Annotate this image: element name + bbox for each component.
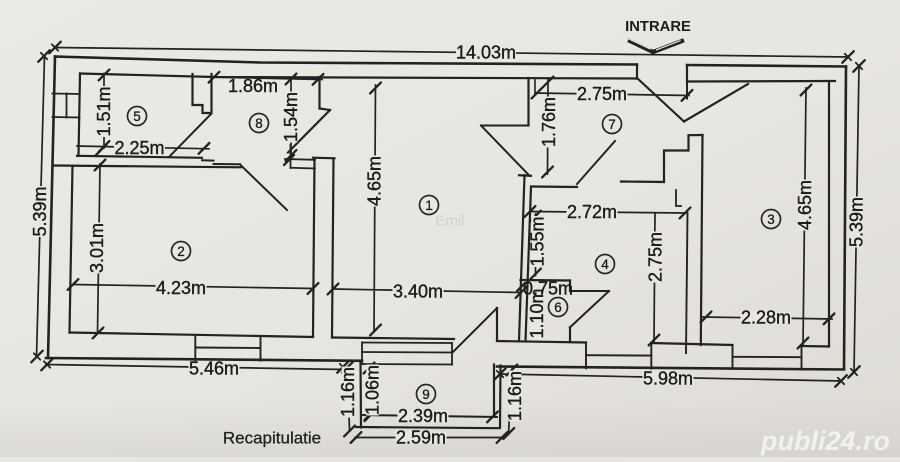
dim 1.16m right text — [509, 371, 522, 422]
dim 2.75m right tick bottom — [649, 335, 660, 346]
dim 0.75m tick left — [517, 283, 525, 291]
dim 4.23m text — [156, 282, 207, 294]
wall: left exterior inner edge upper (room 5) — [79, 74, 81, 157]
wall mid lower face — [54, 166, 241, 168]
wall: bottom inner edge rooms 1 — [334, 338, 455, 340]
svg-text:5.39m: 5.39m — [847, 197, 867, 247]
flue box divider — [66, 94, 68, 118]
wall: bottom inner edge between windows — [651, 343, 732, 345]
dim 2.72m text — [567, 206, 618, 218]
svg-text:1.86m: 1.86m — [228, 76, 278, 96]
wall 2|1 top cap — [313, 157, 335, 160]
dim 14.03m tick left — [49, 42, 61, 54]
dim 4.23m tick left — [68, 279, 79, 290]
dim 1.51m tick top — [99, 70, 110, 81]
wall: right exterior outer edge — [844, 67, 846, 370]
window room2 jamb left — [194, 336, 196, 360]
svg-text:0.75m: 0.75m — [523, 279, 573, 299]
room label 3 — [762, 210, 781, 229]
svg-text:9: 9 — [422, 387, 430, 402]
svg-text:1.06m: 1.06m — [363, 365, 383, 415]
svg-text:3: 3 — [767, 212, 775, 227]
dim 5.39m right line — [854, 66, 859, 372]
wall room8 right vertical — [318, 77, 320, 109]
wall: bottom exterior outer edge left section — [46, 358, 362, 361]
dim 2.25m line — [77, 146, 209, 149]
svg-text:2.75m: 2.75m — [646, 232, 666, 282]
dim 5.98m text — [643, 373, 694, 385]
wall: entrance left jamb — [636, 65, 638, 79]
dim 2.39m text — [398, 410, 449, 422]
dim 3.01m line — [98, 164, 101, 333]
door entrance swing left — [637, 78, 684, 122]
svg-text:2.75m: 2.75m — [577, 84, 627, 104]
dim 1.16m left line — [348, 367, 350, 431]
door 1-7 lintel — [481, 125, 529, 127]
dim 2.59m tick right — [497, 432, 508, 443]
dim 1.76m tick top — [543, 77, 554, 88]
wall: left exterior inner edge lower (room 2) — [70, 166, 73, 333]
wall room9 right outer — [499, 366, 502, 428]
wall stub between rooms 5 and 8 — [193, 74, 212, 113]
dim 2.28m line — [703, 317, 832, 319]
svg-text:7: 7 — [608, 117, 616, 132]
wall room6 top (0.75m line) — [521, 279, 571, 282]
dim 1.54m tick bottom — [286, 150, 297, 161]
wall: bottom inner edge room3 right — [802, 345, 830, 348]
svg-text:publi24.ro: publi24.ro — [760, 426, 890, 456]
dim 5.39m left text — [34, 186, 47, 237]
dim 2.59m line — [355, 437, 503, 439]
wall: right exterior inner edge — [828, 81, 830, 346]
door jamb stub — [290, 145, 292, 168]
svg-text:INTRARE: INTRARE — [625, 19, 691, 35]
dim 5.46m text — [189, 363, 240, 375]
wall 2|1 left face — [313, 159, 315, 337]
door 1-7 swing — [481, 126, 529, 176]
dim 1.54m tick top — [286, 74, 297, 85]
dim 2.25m tick left — [96, 145, 107, 156]
wall: top exterior inner edge right section — [687, 80, 835, 83]
dim 14.03m text — [456, 47, 516, 59]
dim 1.86m tick right — [313, 74, 324, 85]
room label 5 — [128, 107, 147, 126]
svg-text:2.39m: 2.39m — [398, 406, 448, 426]
dim 2.72m line — [530, 212, 685, 214]
dim 1.55m tick bottom — [530, 269, 541, 280]
wall 1|4 right face — [526, 187, 532, 342]
dim 2.75m top tick left — [532, 88, 543, 99]
svg-text:2.72m: 2.72m — [567, 202, 617, 222]
wall 2|1 right face — [332, 159, 334, 338]
window room4 jamb left — [585, 343, 587, 369]
dim 2.28m text — [741, 312, 792, 324]
dim 1.06m text — [366, 365, 379, 416]
room label 4 — [596, 255, 615, 274]
wall room9 right inner — [493, 365, 495, 416]
dim 5.39m left tick bottom — [31, 351, 43, 363]
window room9 jamb right — [451, 343, 453, 365]
wall room9 door jamb — [496, 308, 498, 341]
dim 4.65m left tick top — [370, 83, 381, 94]
dim 2.75m top text — [577, 88, 628, 100]
svg-text:3.40m: 3.40m — [393, 282, 443, 302]
wall 1|7 vertical — [527, 78, 529, 126]
dim 4.65m left line — [374, 85, 376, 332]
dim 4.65m left text — [368, 156, 381, 207]
svg-text:14.03m: 14.03m — [456, 43, 516, 63]
dim 14.03m tick right — [842, 51, 854, 63]
window room3 jamb left — [732, 345, 734, 369]
door 6 swing — [570, 291, 609, 327]
dim 1.10m text — [531, 288, 544, 339]
dim 5.39m right tick bottom — [848, 366, 860, 378]
window room2 mid line — [195, 347, 260, 350]
entrance arrow left echo — [630, 39, 651, 49]
svg-text:Emil: Emil — [435, 213, 464, 230]
dim 1.55m line — [535, 214, 537, 276]
wall room4 top left seg — [531, 185, 577, 188]
svg-text:5: 5 — [133, 109, 141, 124]
dim 1.51m line — [103, 74, 105, 149]
dim 1.16m left text — [342, 367, 355, 418]
dim 3.01m text — [91, 223, 104, 274]
dim 1.06m tick bottom — [365, 409, 376, 420]
svg-text:1.16m: 1.16m — [505, 371, 525, 421]
dim 3.01m tick top — [95, 160, 106, 171]
wall: top exterior outer edge (right of entrance) — [687, 65, 846, 67]
door 7-4 swing — [577, 141, 615, 184]
window room9 top line — [362, 342, 452, 345]
dim 5.98m line — [500, 374, 841, 381]
dim 2.75m top line — [535, 93, 689, 96]
dim 1.16m left tick bottom — [344, 426, 355, 437]
room label 2 — [172, 242, 191, 261]
dim 2.39m tick right — [487, 412, 498, 423]
dim 1.55m text — [531, 216, 544, 267]
dim 3.01m tick bottom — [93, 328, 104, 339]
dim 1.54m text — [285, 92, 298, 143]
svg-text:4.23m: 4.23m — [156, 278, 206, 298]
svg-text:2.25m: 2.25m — [114, 138, 164, 158]
svg-text:4.65m: 4.65m — [795, 180, 815, 230]
entrance arrow left stroke — [630, 41, 653, 52]
dim 5.98m tick left — [494, 368, 506, 380]
dim 5.39m left line — [37, 56, 45, 357]
door threshold top rooms1 — [285, 158, 315, 161]
dim 3.40m tick left — [328, 284, 339, 295]
wall room8 slant — [288, 110, 330, 153]
svg-text:2: 2 — [177, 244, 185, 259]
wall 1|4 left face — [519, 175, 525, 341]
dim 3.40m text — [393, 286, 444, 298]
dim 5.46m tick left — [41, 359, 53, 371]
dim 1.55m tick top — [530, 211, 541, 222]
wall: top exterior inner edge — [80, 74, 637, 79]
dim 1.86m tick left — [209, 72, 220, 83]
wall room9 left — [359, 361, 362, 428]
wall: left exterior outer edge — [48, 57, 55, 359]
dim 5.46m line — [46, 365, 344, 370]
dim 4.23m tick right — [308, 283, 319, 294]
wall room9 bottom outer — [356, 427, 499, 428]
dim 2.25m text — [114, 142, 165, 154]
dim 4.65m right text — [799, 180, 812, 231]
wall 1|4 top cap — [519, 174, 531, 177]
window room3 mid line — [733, 356, 802, 358]
svg-text:8: 8 — [255, 116, 263, 131]
door 6 lintel — [572, 290, 609, 292]
dim 2.25m tick right — [199, 143, 210, 154]
door threshold bottom rooms1 — [291, 167, 315, 170]
wall mid upper face step2 — [214, 163, 241, 165]
dim 2.28m tick right — [824, 314, 835, 325]
svg-text:1.76m: 1.76m — [539, 97, 559, 147]
dim 5.98m tick right — [835, 375, 847, 387]
door rooms8-2 swing — [240, 165, 287, 211]
dim 5.39m right tick top — [853, 60, 865, 72]
wall mid upper face seg1 (room5 south) — [77, 156, 202, 158]
room label 7 — [603, 115, 622, 134]
dim 14.03m line — [55, 48, 848, 58]
door slash tick near slant end — [284, 155, 294, 165]
dim 1.76m line — [547, 80, 550, 174]
window room9 jamb left — [361, 343, 363, 365]
wall room6 right lower — [569, 327, 571, 341]
wall: bottom inner edge right section — [497, 341, 586, 343]
room label 8 — [250, 114, 269, 133]
wall 7|4 staircase — [664, 135, 703, 182]
wall: top exterior outer edge (left of entrance) — [55, 57, 637, 65]
dim 4.65m right tick bottom — [798, 338, 809, 349]
svg-text:6: 6 — [554, 300, 562, 315]
wall 4|3 right face — [701, 135, 703, 345]
wall: bottom inner edge room2 — [70, 333, 314, 338]
dim 2.28m tick left — [701, 312, 712, 323]
dim 2.39m tick left — [365, 410, 376, 421]
wall room6 right upper — [569, 281, 571, 292]
wall: entrance right jamb extension — [686, 82, 688, 99]
window room2 jamb right — [260, 336, 262, 360]
wall 4|3 left face — [686, 213, 688, 353]
svg-text:5.46m: 5.46m — [189, 359, 239, 379]
window room9 mid line — [362, 351, 452, 354]
entrance arrow right stroke — [653, 41, 682, 52]
dim 2.72m tick right — [680, 208, 691, 219]
flue box bottom — [53, 116, 80, 119]
svg-text:1.54m: 1.54m — [281, 92, 301, 142]
dim 1.86m line — [206, 77, 322, 80]
dim 5.46m tick right — [337, 361, 349, 373]
dim extension step — [676, 190, 681, 206]
svg-text:3.01m: 3.01m — [87, 223, 107, 273]
dim 1.16m right tick top — [506, 365, 517, 376]
dim 3.40m line — [333, 289, 521, 293]
dim 2.72m tick left — [525, 206, 536, 217]
dim 1.16m right tick bottom — [503, 428, 514, 439]
window room4 mid line1 — [586, 354, 651, 356]
door entrance swing right — [684, 84, 748, 122]
dim 2.75m extension line — [534, 80, 536, 93]
dim 1.54m line — [290, 78, 292, 157]
svg-text:1: 1 — [425, 198, 433, 213]
window room4 jamb right — [650, 343, 652, 369]
dim 5.39m left tick top — [38, 50, 50, 62]
window room9 bottom line — [362, 363, 452, 366]
svg-text:1.55m: 1.55m — [528, 216, 548, 266]
dim 2.59m tick left — [351, 432, 362, 443]
door room9 swing — [453, 308, 497, 352]
dim 2.59m text — [396, 432, 447, 444]
dim 1.06m line — [369, 367, 370, 415]
svg-text:1.16m: 1.16m — [338, 367, 358, 417]
room label 6 — [549, 298, 568, 317]
dim 4.65m left tick bottom — [370, 325, 381, 336]
svg-text:4.65m: 4.65m — [365, 156, 385, 206]
room label 1 — [420, 196, 439, 215]
door room5 swing — [169, 114, 211, 157]
flue box top — [53, 93, 80, 96]
dim 4.65m right line — [803, 88, 806, 345]
wall room4 top right seg — [621, 180, 664, 183]
wall room8 right jog — [320, 109, 331, 111]
dim 1.51m tick bottom — [99, 141, 110, 152]
dim 5.39m right text — [850, 197, 863, 248]
dim 2.75m top tick right — [682, 90, 693, 101]
dim 1.76m tick bottom — [542, 167, 553, 178]
svg-text:1.51m: 1.51m — [94, 86, 114, 136]
dim 2.75m right text — [649, 232, 662, 283]
dim 2.39m line (room9 bottom inner) — [361, 415, 497, 417]
dim 1.51m text — [98, 86, 111, 137]
dim 4.65m right tick top — [801, 85, 812, 96]
svg-text:2.28m: 2.28m — [741, 308, 791, 328]
dim 4.23m line — [74, 285, 313, 289]
svg-text:Recapitulatie: Recapitulatie — [223, 429, 321, 448]
dim 2.75m right line — [654, 214, 655, 342]
window room3 jamb right — [801, 346, 803, 370]
svg-text:5.39m: 5.39m — [30, 186, 50, 236]
entrance arrow right echo — [657, 41, 681, 50]
dim 1.16m left tick top — [342, 362, 353, 373]
wall: bottom exterior outer edge right section — [497, 367, 844, 370]
svg-text:4: 4 — [601, 257, 609, 272]
dim 3.40m tick right — [516, 287, 527, 298]
dim 1.06m tick top — [364, 363, 375, 374]
wall: entrance right jamb — [686, 65, 688, 82]
room label 9 — [417, 385, 436, 404]
dim 1.76m text — [543, 97, 556, 148]
svg-text:5.98m: 5.98m — [643, 369, 693, 389]
svg-text:2.59m: 2.59m — [396, 428, 446, 448]
wall mid upper face step — [202, 159, 214, 161]
dim 1.16m right line — [509, 369, 513, 435]
